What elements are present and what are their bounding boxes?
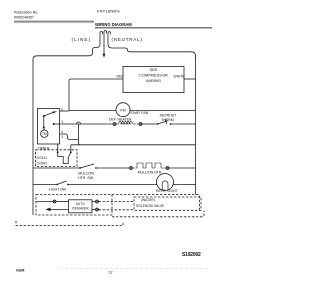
svg-text:EVAP. FAN: EVAP. FAN <box>131 111 149 115</box>
wire defrost feed down <box>78 124 80 140</box>
svg-text:COLD: COLD <box>37 156 48 160</box>
svg-text:FRT18NRG: FRT18NRG <box>97 9 120 14</box>
icemaker inner box <box>69 200 93 213</box>
svg-text:TM: TM <box>42 132 47 136</box>
svg-text:SEE: SEE <box>149 67 157 72</box>
svg-text:MULLION HTR.: MULLION HTR. <box>138 170 163 174</box>
wire icemaker lower (dashed) <box>99 209 135 211</box>
compressor box <box>123 67 184 93</box>
svg-text:RED: RED <box>117 75 125 79</box>
label DEFROST THERM. <box>160 114 178 122</box>
timer motor TM <box>41 130 48 137</box>
svg-text:(NEUTRAL): (NEUTRAL) <box>112 37 143 42</box>
wire line side (left top) <box>33 44 100 61</box>
wire neutral loop to solenoid (dashed) <box>112 195 200 211</box>
timer switch arm <box>44 112 54 116</box>
cold control thermostat element <box>58 152 71 163</box>
defrost thermostat <box>157 123 159 125</box>
svg-text:WHITE: WHITE <box>174 75 186 79</box>
svg-text:HTR. SW.: HTR. SW. <box>78 176 94 180</box>
mullion heater terminal left <box>130 167 133 170</box>
power cord plug prongs <box>100 31 103 44</box>
wire compressor to neutral rail <box>184 78 196 80</box>
svg-text:2: 2 <box>61 107 63 111</box>
wire mullion to rail <box>169 167 196 169</box>
left rail <box>32 60 34 215</box>
wire icemaker to solenoid (dashed) <box>99 201 135 203</box>
svg-text:(WATER): (WATER) <box>141 198 155 202</box>
wire timer to cold control <box>57 144 59 152</box>
water solenoid valve dashed box <box>134 197 201 210</box>
light switch <box>56 184 58 186</box>
wire light row <box>33 184 57 186</box>
svg-text:FM: FM <box>120 108 125 112</box>
svg-text:3: 3 <box>61 135 63 139</box>
svg-text:Publication No.: Publication No. <box>14 11 38 15</box>
wire neutral side (right top) <box>108 44 196 57</box>
icemaker terminal right bottom <box>92 209 96 211</box>
svg-text:S192002: S192002 <box>182 252 201 258</box>
icemaker water fill arrow <box>50 208 69 210</box>
wire switch to heater <box>97 167 130 169</box>
defrost heater terminal right <box>139 123 142 126</box>
wire timer to neutral rail <box>71 144 196 146</box>
timer box <box>38 109 60 145</box>
label COLD CONT. <box>37 156 48 165</box>
mullion heater terminal right <box>166 167 169 170</box>
icemaker feed wire <box>36 201 53 203</box>
svg-text:WIRING: WIRING <box>146 78 161 83</box>
wire switch to lamp <box>69 184 157 186</box>
wire lamp to rail <box>173 184 195 186</box>
outer cabinet dashed corner bottom left <box>16 221 123 226</box>
mullion heater switch <box>79 167 81 169</box>
refrigerator light lamp <box>157 174 174 191</box>
header publication text <box>14 11 38 20</box>
svg-text:MULLION: MULLION <box>78 171 94 175</box>
svg-text:AUTO: AUTO <box>76 202 85 206</box>
timer terminal 1 <box>60 123 79 125</box>
timer terminal 2 <box>60 110 70 112</box>
svg-text:SOLENOID VALVE: SOLENOID VALVE <box>136 204 165 208</box>
icemaker terminal right top <box>92 201 96 203</box>
svg-text:CONT.: CONT. <box>37 161 48 165</box>
cold control contacts <box>57 151 59 153</box>
timer contacts <box>43 111 55 128</box>
cold control box <box>36 150 78 167</box>
svg-text:12: 12 <box>109 271 113 275</box>
wire defrost to rail <box>171 123 195 125</box>
mullion heater element <box>133 163 167 168</box>
svg-text:WIRING DIAGRAM: WIRING DIAGRAM <box>95 22 132 27</box>
outer enclosure dashed bottom line <box>112 211 204 217</box>
svg-text:LIGHT SW.: LIGHT SW. <box>49 188 67 192</box>
wire evap fan row <box>69 110 116 112</box>
faint footer rule <box>60 268 210 270</box>
svg-text:DEF. HEATER: DEF. HEATER <box>109 117 132 121</box>
icemaker terminal left <box>53 200 56 203</box>
wire compressor feed <box>69 79 123 111</box>
defrost heater element <box>116 121 139 124</box>
wire defrost row left <box>78 123 112 125</box>
svg-text:THERM.: THERM. <box>161 118 174 122</box>
wire mullion row <box>33 167 80 169</box>
header rule left <box>14 20 94 22</box>
svg-text:REFR. LIGHT: REFR. LIGHT <box>156 189 179 193</box>
ground arrow <box>103 54 106 58</box>
svg-text:1: 1 <box>61 120 63 124</box>
svg-text:(LINE): (LINE) <box>72 37 92 42</box>
svg-text:5995248457: 5995248457 <box>14 16 34 20</box>
svg-text:ICEMAKER: ICEMAKER <box>72 206 89 210</box>
svg-text:GUM: GUM <box>16 269 24 273</box>
svg-text:COMPRESSOR: COMPRESSOR <box>139 72 168 77</box>
wire rail row to cold control <box>70 145 72 153</box>
svg-text:4: 4 <box>61 130 63 134</box>
right rail <box>195 56 197 195</box>
defrost heater terminal left <box>112 123 113 125</box>
icemaker outer dashed box <box>36 195 112 216</box>
junction hump <box>77 122 81 124</box>
label MULLION HTR. SW. <box>78 171 94 179</box>
header rule right <box>95 27 212 29</box>
evap fan motor FM <box>116 103 130 117</box>
